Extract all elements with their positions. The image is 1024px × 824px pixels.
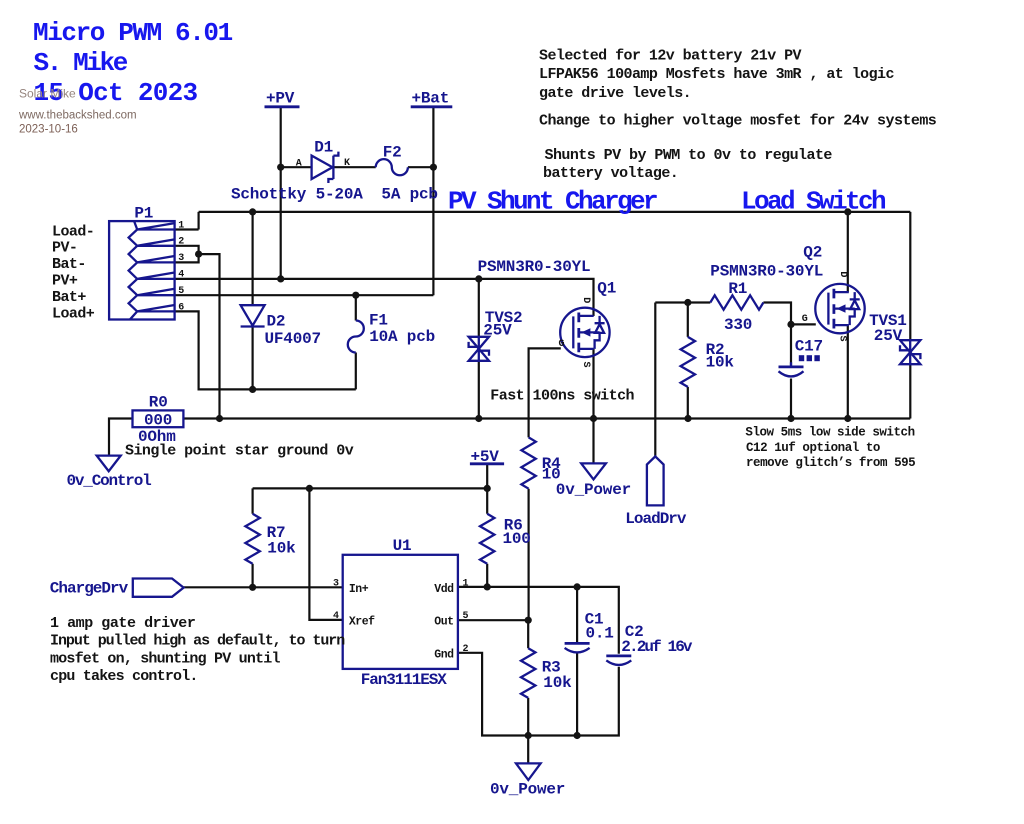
svg-text:gate drive levels.: gate drive levels. — [539, 85, 691, 102]
svg-text:Gnd: Gnd — [434, 649, 454, 662]
label R2 — [706, 341, 725, 359]
svg-text:5: 5 — [463, 611, 469, 622]
wire R3 leads — [527, 620, 529, 735]
label D1 — [314, 139, 333, 157]
P1 pin number 1 — [178, 220, 184, 231]
svg-text:25V: 25V — [483, 322, 512, 340]
svg-text:D1: D1 — [314, 139, 333, 157]
junction dot node top rail / Q2 drain — [844, 208, 851, 215]
junction dot node Q2 gate / C17 / R1 — [787, 321, 794, 328]
wire C1 leads — [576, 587, 578, 736]
ground 0v_Power mid — [581, 463, 606, 479]
label F1 — [369, 311, 388, 329]
wire P1 pin5 Bat+ row — [175, 294, 434, 296]
junction dot node +PV/D1 anode — [277, 164, 284, 171]
svg-text:U1: U1 — [393, 537, 412, 555]
label 10A pcb — [369, 328, 435, 346]
wire +PV stem — [280, 107, 282, 279]
label C2 value — [621, 638, 693, 656]
label UF4007 — [265, 330, 321, 348]
note single point star ground — [125, 442, 354, 459]
IC U1 box — [343, 555, 458, 669]
mosfet Q1 — [560, 308, 609, 357]
wire Q2 source — [847, 325, 849, 418]
junction dot node R1 / R2 — [684, 299, 691, 306]
junction dot node ground rail / C17 — [787, 415, 794, 422]
svg-text:6: 6 — [178, 302, 184, 313]
note fast switch — [490, 388, 634, 405]
svg-text:2: 2 — [463, 644, 469, 655]
label 0v_Power bottom — [490, 780, 565, 798]
label D Q1 — [580, 297, 591, 303]
wire D1 anode lead — [281, 166, 312, 168]
wire +Bat stem — [432, 107, 434, 295]
wire 0v_Power stem mid — [592, 419, 594, 464]
label D2 — [267, 313, 286, 331]
P1 pin number 3 — [178, 253, 184, 264]
junction dot node bottom rail / C1 — [574, 732, 581, 739]
wire P1 pin4 PV+ row — [175, 279, 594, 316]
capacitor C1 — [565, 643, 590, 652]
wire top rail (Load- / switched node) — [175, 212, 911, 230]
label 0v_Power mid — [556, 481, 631, 499]
svg-text:LFPAK56 100amp Mosfets have 3m: LFPAK56 100amp Mosfets have 3mR , at log… — [539, 66, 895, 83]
label A anode — [296, 158, 302, 169]
svg-text:K: K — [344, 158, 350, 169]
junction dot node bottom rail / R3 / 0v_Power — [525, 732, 532, 739]
label P1 pin name Load+ — [52, 305, 95, 322]
P1 pin number 5 — [178, 286, 184, 297]
label P1 pin name PV+ — [52, 273, 78, 290]
svg-text:2.2uf 16v: 2.2uf 16v — [621, 638, 693, 656]
label 0v_Control — [67, 472, 152, 490]
svg-text:2023-10-16: 2023-10-16 — [19, 124, 78, 136]
label C1 — [585, 611, 604, 629]
svg-text:PV-: PV- — [52, 240, 77, 257]
power flag +Bat — [411, 105, 453, 108]
fuse F1 — [348, 321, 364, 353]
svg-text:S. Mike: S. Mike — [34, 48, 128, 78]
label C2 — [625, 623, 644, 641]
label R4 — [542, 455, 561, 473]
label U1 — [393, 537, 412, 555]
svg-text:0v_Power: 0v_Power — [490, 780, 565, 798]
label K cathode — [344, 158, 350, 169]
power flag +5V — [470, 462, 504, 465]
svg-text:Fan3111ESX: Fan3111ESX — [361, 671, 448, 689]
label TVS1 — [869, 312, 907, 330]
svg-text:Bat+: Bat+ — [52, 289, 86, 306]
svg-text:4: 4 — [178, 270, 184, 281]
junction dot node top rail / D2 — [249, 208, 256, 215]
svg-text:Shunts PV by PWM to 0v to regu: Shunts PV by PWM to 0v to regulate — [545, 147, 833, 164]
wire R6 leads — [486, 488, 488, 587]
svg-text:Q2: Q2 — [803, 244, 822, 262]
label Fan3111ESX — [361, 671, 448, 689]
svg-text:D2: D2 — [267, 313, 286, 331]
svg-text:Out: Out — [434, 615, 453, 628]
svg-text:10A pcb: 10A pcb — [369, 328, 435, 346]
U1 pin number 4 — [333, 611, 339, 622]
port ChargeDrv — [133, 579, 184, 597]
svg-text:10k: 10k — [267, 539, 296, 557]
svg-text:G: G — [802, 314, 808, 325]
svg-text:D: D — [580, 297, 591, 303]
resistor R3 zigzag — [521, 648, 535, 698]
svg-text:1: 1 — [178, 220, 184, 231]
label U1 pin Xref — [349, 615, 375, 628]
label P1 pin name Bat+ — [52, 289, 86, 306]
junction dot node PV+ / TVS2 — [475, 275, 482, 282]
section title Load Switch — [741, 186, 886, 216]
diode D1 schottky — [312, 152, 339, 183]
svg-text:C17: C17 — [795, 338, 823, 356]
wire D1 cathode to F2 — [333, 166, 375, 168]
label LoadDrv — [625, 510, 687, 528]
power flag +PV — [265, 105, 300, 108]
wire +5V stem and rail — [253, 464, 488, 489]
wire pin2/3 tie to star point — [199, 254, 220, 418]
label S Q1 — [580, 362, 591, 368]
label G Q2 — [802, 314, 808, 325]
label 330 R1 — [724, 316, 752, 334]
junction dot node Vdd / R6 — [484, 583, 491, 590]
wire ChargeDrv to In+ — [184, 586, 344, 588]
label PSMN3R0-30YL Q2 — [710, 263, 823, 281]
wire Q1 source to ground rail — [592, 349, 594, 419]
label Schottky value — [231, 186, 438, 204]
svg-text:Schottky 5-20A 5A pcb: Schottky 5-20A 5A pcb — [231, 186, 438, 204]
connector P1 — [109, 221, 175, 319]
wire Q2 drain — [847, 212, 849, 292]
U1 pin number 2 — [463, 644, 469, 655]
label 100 R6 — [503, 530, 531, 548]
label R3 — [542, 659, 561, 677]
wire P1 pin6 Load+ loop — [175, 311, 356, 389]
junction dot node star ground tie — [216, 415, 223, 422]
junction dot node D1/F2/+Bat — [430, 164, 437, 171]
svg-text:Vdd: Vdd — [434, 583, 454, 596]
wire Q2 gate — [791, 323, 816, 325]
svg-text:PV+: PV+ — [52, 273, 78, 290]
wire Gnd to bottom rail — [458, 653, 619, 736]
label S Q2 — [836, 336, 847, 342]
svg-text:1: 1 — [463, 578, 469, 589]
svg-text:Bat-: Bat- — [52, 256, 86, 273]
label ChargeDrv — [50, 580, 129, 598]
svg-text:Q1: Q1 — [597, 279, 616, 297]
svg-text:3: 3 — [178, 253, 184, 264]
svg-text:1 amp gate driver: 1 amp gate driver — [50, 615, 195, 632]
diode D2 — [241, 305, 265, 326]
label R6 — [504, 517, 523, 535]
title block — [33, 18, 233, 108]
wire R7 leads — [252, 488, 254, 587]
label D Q2 — [837, 271, 848, 277]
svg-text:Micro PWM 6.01: Micro PWM 6.01 — [33, 18, 233, 48]
label P1 pin name PV- — [52, 240, 77, 257]
label F2 — [383, 143, 402, 161]
svg-text:PSMN3R0-30YL: PSMN3R0-30YL — [478, 258, 591, 276]
wire F1 leads — [355, 295, 357, 389]
label 0Ohm — [138, 428, 176, 446]
svg-text:R0: R0 — [149, 394, 168, 412]
ground 0v_Power bottom — [516, 763, 541, 780]
label U1 pin In+ — [349, 583, 369, 596]
wire D2 top lead — [252, 212, 254, 306]
port LoadDrv — [647, 456, 664, 505]
ground 0v_Control — [97, 456, 121, 472]
U1 pin number 5 — [463, 611, 469, 622]
label R7 — [267, 524, 286, 542]
junction dot node Vdd rail / C1 — [574, 583, 581, 590]
label Q2 — [803, 244, 822, 262]
junction dot node +5V rail / R6 — [484, 485, 491, 492]
svg-text:www.thebackshed.com: www.thebackshed.com — [18, 109, 137, 121]
junction dot node ground rail / TVS2 — [475, 415, 482, 422]
svg-text:ChargeDrv: ChargeDrv — [50, 580, 129, 598]
resistor R1 zigzag — [710, 295, 763, 309]
svg-text:A: A — [296, 158, 302, 169]
wire right edge TVS1 branch — [909, 212, 911, 419]
svg-text:PV Shunt Charger: PV Shunt Charger — [448, 186, 657, 216]
svg-text:C12 1uf optional to: C12 1uf optional to — [746, 441, 880, 455]
svg-text:Xref: Xref — [349, 615, 375, 628]
fuse F2 — [376, 159, 408, 175]
label 000 — [144, 412, 172, 430]
svg-text:Load+: Load+ — [52, 305, 95, 322]
annotation selected-for — [539, 47, 937, 182]
P1 pin number 2 — [178, 237, 184, 248]
svg-text:Solar Mike: Solar Mike — [19, 87, 76, 101]
svg-text:F1: F1 — [369, 311, 388, 329]
svg-text:S: S — [836, 336, 847, 342]
svg-text:mosfet on, shunting PV until: mosfet on, shunting PV until — [50, 650, 280, 667]
svg-text:P1: P1 — [134, 204, 153, 222]
svg-text:000: 000 — [144, 412, 172, 430]
watermark Solar Mike — [18, 87, 137, 136]
svg-text:Input pulled high as default,: Input pulled high as default, to turn — [50, 633, 345, 650]
svg-text:Load-: Load- — [52, 223, 94, 240]
U1 pin number 1 — [463, 578, 469, 589]
junction dot node D2 / Load+ loop — [249, 386, 256, 393]
svg-text:battery voltage.: battery voltage. — [543, 165, 678, 182]
svg-text:10k: 10k — [706, 354, 735, 372]
svg-text:10k: 10k — [543, 674, 572, 692]
svg-text:0.1: 0.1 — [586, 624, 614, 642]
resistor R2 zigzag — [681, 337, 695, 387]
wire Q1 gate to R4 — [529, 348, 561, 437]
svg-text:Slow 5ms low side switch: Slow 5ms low side switch — [745, 425, 914, 439]
mosfet Q2 — [815, 284, 864, 333]
resistor R4 zigzag — [521, 437, 535, 488]
svg-text:+5V: +5V — [471, 448, 500, 466]
svg-text:S: S — [580, 362, 591, 368]
wire P1 pin2 — [175, 246, 199, 263]
wire F2 to +Bat — [408, 166, 434, 168]
svg-text:D: D — [837, 271, 848, 277]
wire R4 bottom to Out node — [527, 489, 529, 621]
junction dot node ground rail / R2 — [684, 415, 691, 422]
label +PV — [266, 90, 295, 108]
label 25V TVS1 — [874, 327, 903, 345]
label 10k R7 — [267, 539, 296, 557]
svg-text:330: 330 — [724, 316, 752, 334]
wire Xref riser — [309, 488, 343, 620]
wire D2 bottom lead — [252, 327, 254, 389]
svg-text:LoadDrv: LoadDrv — [625, 510, 687, 528]
TVS1 — [900, 340, 920, 364]
label PSMN3R0-30YL Q1 — [478, 258, 591, 276]
svg-text:+Bat: +Bat — [412, 90, 450, 108]
wire R0 left + 0v_Control stem — [109, 419, 133, 456]
resistor R6 zigzag — [480, 514, 494, 564]
label U1 pin Out — [434, 615, 453, 628]
label R0 — [149, 394, 168, 412]
label +5V — [471, 448, 500, 466]
svg-text:R1: R1 — [728, 280, 747, 298]
resistor R0 — [133, 410, 184, 427]
section title PV Shunt Charger — [448, 186, 657, 216]
svg-text:Selected for 12v battery 21v P: Selected for 12v battery 21v PV — [539, 47, 802, 64]
svg-text:3: 3 — [333, 578, 339, 589]
label TVS2 — [485, 309, 523, 327]
label 0.1 C1 — [586, 624, 614, 642]
svg-text:5: 5 — [178, 286, 184, 297]
wire ground rail 0v — [183, 417, 910, 419]
junction dot node +5V rail / Xref riser — [306, 485, 313, 492]
label P1 pin name Bat- — [52, 256, 86, 273]
svg-text:cpu takes control.: cpu takes control. — [50, 668, 198, 685]
wire Vdd row — [458, 587, 619, 654]
label P1 — [134, 204, 153, 222]
capacitor C17 — [779, 355, 820, 376]
label Q1 — [597, 279, 616, 297]
svg-text:In+: In+ — [349, 583, 369, 596]
svg-text:F2: F2 — [383, 143, 402, 161]
svg-text:25V: 25V — [874, 327, 903, 345]
wire LoadDrv riser — [654, 303, 656, 457]
wire 0v_Power stem bottom — [527, 736, 529, 764]
wire R1 row — [655, 303, 791, 325]
svg-text:remove glitch’s from 595: remove glitch’s from 595 — [746, 456, 915, 470]
svg-text:100: 100 — [503, 530, 531, 548]
wire TVS2 leads — [478, 279, 480, 419]
svg-text:Fast 100ns switch: Fast 100ns switch — [490, 388, 634, 405]
label P1 pin name Load- — [52, 223, 94, 240]
wire R2 leads — [687, 303, 689, 419]
label R1 — [728, 280, 747, 298]
svg-text:Load Switch: Load Switch — [741, 186, 886, 216]
note slow switch — [745, 425, 915, 469]
svg-text:4: 4 — [333, 611, 339, 622]
wire Out stub — [458, 619, 528, 621]
label +Bat — [412, 90, 450, 108]
svg-text:Change to higher voltage mosfe: Change to higher voltage mosfet for 24v … — [539, 113, 937, 130]
TVS2 — [469, 337, 489, 361]
svg-text:2: 2 — [178, 237, 184, 248]
label 10 R4 — [542, 466, 561, 484]
svg-text:UF4007: UF4007 — [265, 330, 321, 348]
label 10k R3 — [543, 674, 572, 692]
label U1 pin Gnd — [434, 649, 454, 662]
label U1 pin Vdd — [434, 583, 454, 596]
note gate driver — [50, 615, 345, 685]
svg-text:PSMN3R0-30YL: PSMN3R0-30YL — [710, 263, 823, 281]
junction dot node Bat+ / F1 — [352, 292, 359, 299]
label 10k R2 — [706, 354, 735, 372]
svg-text:Single point star ground 0v: Single point star ground 0v — [125, 442, 354, 459]
junction dot node Out / R4 / R3 — [525, 617, 532, 624]
junction dot node ground rail / Q1 source — [590, 415, 597, 422]
svg-text:+PV: +PV — [266, 90, 295, 108]
junction dot node P1 pin2/3 tie — [195, 251, 202, 258]
U1 pin number 3 — [333, 578, 339, 589]
label G Q1 — [559, 339, 565, 350]
P1 pin number 6 — [178, 302, 184, 313]
wire C17 leads — [790, 324, 792, 418]
svg-text:G: G — [559, 339, 565, 350]
junction dot node PV+ / +PV stem — [277, 275, 284, 282]
resistor R7 zigzag — [245, 514, 259, 564]
junction dot node ground rail / Q2 source — [844, 415, 851, 422]
capacitor C2 — [606, 656, 631, 665]
P1 pin number 4 — [178, 270, 184, 281]
svg-text:0v_Control: 0v_Control — [67, 472, 152, 490]
junction dot node ChargeDrv / R7 — [249, 584, 256, 591]
svg-text:0v_Power: 0v_Power — [556, 481, 631, 499]
label 25V TVS2 — [483, 322, 512, 340]
label C17 — [795, 338, 823, 356]
